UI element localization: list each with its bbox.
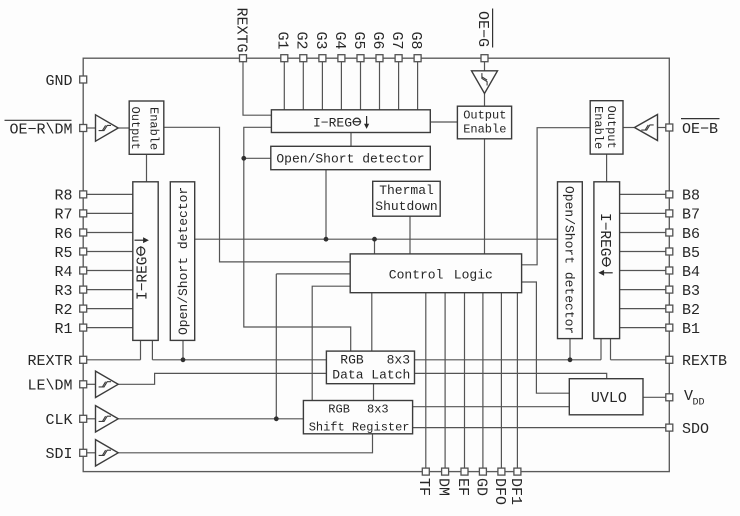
svg-text:Open/Short detector: Open/Short detector — [276, 152, 424, 167]
svg-text:REXTB: REXTB — [682, 353, 727, 370]
svg-text:SDI: SDI — [45, 446, 72, 463]
wire G7 drop — [398, 62, 400, 110]
wire Data Latch to Shift Register — [373, 384, 375, 401]
pin B6 — [666, 229, 673, 236]
svg-text:B4: B4 — [682, 264, 700, 281]
svg-text:B1: B1 — [682, 321, 700, 338]
junction fault B — [372, 237, 377, 242]
wire Control Logic to Shift Register — [312, 286, 350, 400]
wire SDI buffer to Shift Register — [119, 434, 373, 453]
svg-text:R6: R6 — [54, 226, 72, 243]
svg-text:TF: TF — [415, 478, 432, 496]
buffer OE-R input — [96, 115, 119, 141]
svg-text:G4: G4 — [331, 32, 348, 50]
wire branch to Open/Short top — [244, 157, 271, 159]
svg-text:Enable: Enable — [591, 106, 605, 149]
svg-text:Enable: Enable — [463, 123, 506, 137]
svg-text:GD: GD — [472, 478, 489, 496]
svg-text:8x3: 8x3 — [367, 403, 389, 417]
pin TF — [422, 468, 429, 475]
svg-text:Shutdown: Shutdown — [375, 199, 437, 214]
pin R8 — [80, 191, 87, 198]
svg-text:GND: GND — [45, 73, 72, 90]
buffer SDI input — [96, 440, 119, 466]
wire G5 drop — [360, 62, 362, 110]
wire B4 stub — [620, 270, 666, 272]
svg-text:Open/Short detector: Open/Short detector — [561, 186, 576, 334]
junction REXTG branch — [241, 156, 246, 161]
pin OE-B — [666, 124, 673, 131]
svg-text:R7: R7 — [54, 207, 72, 224]
svg-text:LE\DM: LE\DM — [27, 378, 72, 395]
pin B8 — [666, 191, 673, 198]
block Open/Short detector right — [558, 182, 583, 339]
svg-text:DF1: DF1 — [507, 478, 524, 505]
wire EF drop — [464, 293, 466, 472]
wire REXTG to I-REG top — [243, 62, 271, 115]
block RGB 8x3 Data Latch — [326, 351, 414, 384]
svg-text:G6: G6 — [369, 32, 386, 50]
wire I-REG top to Open/Short top — [350, 133, 352, 147]
label I-REG left text — [135, 237, 152, 300]
svg-text:B7: B7 — [682, 207, 700, 224]
wire G3 drop — [321, 62, 323, 110]
svg-text:G3: G3 — [312, 32, 329, 50]
svg-text:I−REG: I−REG — [135, 256, 151, 300]
pin DFO — [498, 468, 505, 475]
wire R6 stub — [87, 232, 133, 234]
wire Shift Register to UVLO — [413, 406, 570, 408]
wire LE buffer to latch bus — [119, 373, 607, 384]
pin G1 — [281, 55, 288, 62]
buffer LE input — [96, 371, 119, 397]
block Thermal Shutdown — [373, 181, 441, 216]
pin G2 — [300, 55, 307, 62]
junction CLK branch — [274, 416, 279, 421]
wire DFO drop — [500, 293, 502, 472]
wire G8 drop — [417, 62, 419, 110]
block I-REG top — [271, 110, 430, 133]
wire OE-R to buffer — [87, 127, 96, 129]
junction REXT left — [181, 357, 186, 362]
pin R2 — [80, 305, 87, 312]
pin OE-G — [481, 55, 488, 62]
wire Thermal Shutdown to Control Logic — [409, 216, 411, 254]
label I-REG right text — [596, 213, 613, 276]
wire I-REG L pin1 — [140, 340, 142, 359]
pin DM — [442, 468, 449, 475]
svg-text:Output: Output — [128, 107, 142, 150]
wire Open/Short top drop — [325, 170, 327, 240]
wire Output Enable L to Control Logic — [164, 127, 350, 262]
svg-text:G1: G1 — [274, 32, 291, 50]
wire R2 stub — [87, 308, 133, 310]
svg-text:Control: Control — [389, 267, 444, 282]
buffer OE-B input — [635, 115, 658, 141]
svg-text:OE−B: OE−B — [682, 121, 718, 138]
wire DF1 drop — [516, 293, 518, 472]
wire G6 drop — [379, 62, 381, 110]
wire Control Logic to Output Enable R — [522, 128, 591, 265]
svg-text:OE−G: OE−G — [474, 11, 491, 47]
wire fault bus — [195, 238, 558, 240]
block I-REG right — [594, 182, 620, 339]
wire G1 drop — [283, 62, 285, 110]
wire REXTR stub — [87, 359, 141, 361]
label I-REG top text — [313, 116, 369, 131]
svg-text:CLK: CLK — [45, 412, 72, 429]
buffer OE-G input — [472, 71, 498, 94]
svg-text:REXTR: REXTR — [27, 353, 72, 370]
pin B1 — [666, 324, 673, 331]
wire Output Enable R to I-REG R — [606, 154, 608, 182]
wire REXTB stub — [611, 359, 666, 361]
wire GD drop — [482, 293, 484, 472]
svg-text:B5: B5 — [682, 245, 700, 262]
wire TF drop — [425, 293, 427, 472]
pin REXTB — [666, 356, 673, 363]
pin R3 — [80, 286, 87, 293]
pin B4 — [666, 267, 673, 274]
pin EF — [461, 468, 468, 475]
svg-text:G2: G2 — [293, 32, 310, 50]
svg-text:B2: B2 — [682, 302, 700, 319]
svg-text:B8: B8 — [682, 188, 700, 205]
svg-text:RGB: RGB — [328, 403, 350, 417]
pin R5 — [80, 248, 87, 255]
svg-text:DM: DM — [435, 478, 452, 496]
wire R7 stub — [87, 212, 133, 214]
wire Control Logic to UVLO — [522, 282, 570, 393]
wire Output Enable L to I-REG L — [146, 154, 148, 182]
wire I-REG R pin2 — [610, 339, 612, 360]
svg-text:Shift Register: Shift Register — [309, 421, 410, 435]
block Open/Short detector left — [170, 182, 194, 341]
pin R4 — [80, 267, 87, 274]
block Open/Short detector top — [271, 146, 431, 169]
svg-text:Open/Short detector: Open/Short detector — [176, 187, 191, 335]
svg-text:G5: G5 — [350, 32, 367, 50]
svg-text:R5: R5 — [54, 245, 72, 262]
wire LE to buffer — [87, 383, 96, 385]
pin B2 — [666, 305, 673, 312]
svg-text:SDO: SDO — [682, 421, 709, 438]
wire UVLO to VDD — [643, 396, 666, 398]
junction fault A — [324, 237, 329, 242]
pin G5 — [357, 55, 364, 62]
wire G4 drop — [340, 62, 342, 110]
block I-REG left — [133, 182, 158, 341]
wire G2 drop — [302, 62, 304, 110]
pin G7 — [395, 55, 402, 62]
wire buffer to Output Enable G — [484, 94, 486, 107]
pin G3 — [319, 55, 326, 62]
svg-text:RGB: RGB — [340, 353, 364, 368]
wire buffer to Output Enable R — [623, 127, 635, 129]
svg-text:R8: R8 — [54, 188, 72, 205]
svg-text:G7: G7 — [388, 32, 405, 50]
pin B5 — [666, 248, 673, 255]
wire OE-G pin to buffer — [484, 62, 486, 71]
svg-text:R3: R3 — [54, 283, 72, 300]
svg-text:R2: R2 — [54, 302, 72, 319]
wire B8 stub — [620, 193, 666, 195]
block Control Logic — [350, 254, 521, 293]
wire Output Enable G to Control Logic — [484, 139, 486, 254]
wire I-REG top to Output Enable G — [430, 121, 457, 123]
svg-text:Data Latch: Data Latch — [332, 368, 410, 383]
wire Open/Short L drop — [182, 340, 184, 359]
wire B6 stub — [620, 232, 666, 234]
pin GND — [80, 76, 87, 83]
svg-text:Output: Output — [463, 109, 506, 123]
block RGB 8x3 Shift Register — [303, 401, 412, 434]
pin REXTG — [240, 55, 247, 62]
wire buffer to Output Enable L — [119, 127, 130, 129]
pin CLK — [80, 415, 87, 422]
svg-text:Thermal: Thermal — [379, 183, 434, 198]
wire CLK branch up — [275, 274, 277, 419]
pin R6 — [80, 229, 87, 236]
pin G8 — [414, 55, 421, 62]
pin LE\DM — [80, 381, 87, 388]
block Output Enable right — [590, 101, 623, 154]
wire I-REG R pin1 — [600, 339, 602, 360]
wire CLK branch to Control Logic — [276, 273, 350, 275]
wire B5 stub — [620, 251, 666, 253]
svg-text:I−REG: I−REG — [313, 116, 352, 131]
pin B3 — [666, 286, 673, 293]
svg-text:Output: Output — [604, 106, 618, 149]
wire I-REG top out to Data Latch — [244, 127, 351, 351]
svg-text:UVLO: UVLO — [591, 390, 627, 407]
pin G4 — [338, 55, 345, 62]
block Output Enable left — [129, 101, 164, 154]
wire SDI to buffer — [87, 452, 96, 454]
svg-text:REXTG: REXTG — [232, 8, 249, 53]
outer boundary of IC — [83, 58, 669, 471]
wire CLK to buffer — [87, 418, 96, 420]
pin R1 — [80, 324, 87, 331]
wire Open/Short R drop — [569, 339, 571, 360]
wire fault bus to Control Logic — [374, 239, 376, 254]
wire Control Logic to Data Latch — [371, 293, 373, 351]
pin G6 — [376, 55, 383, 62]
wire DM drop — [444, 293, 446, 472]
svg-text:DFO: DFO — [491, 478, 508, 505]
wire REXT bus — [152, 359, 601, 361]
wire I-REG L pin2 — [151, 340, 153, 359]
wire B1 stub — [620, 327, 666, 329]
svg-text:Enable: Enable — [147, 107, 161, 150]
svg-text:OE−R\DM: OE−R\DM — [9, 121, 72, 138]
pin SDI — [80, 449, 87, 456]
wire Shift Register to SDO — [413, 427, 666, 429]
svg-text:G8: G8 — [407, 32, 424, 50]
svg-text:I−REG: I−REG — [596, 213, 612, 257]
svg-text:R1: R1 — [54, 321, 72, 338]
buffer CLK input — [96, 406, 119, 432]
wire B2 stub — [620, 308, 666, 310]
pin REXTR — [80, 356, 87, 363]
svg-text:8x3: 8x3 — [387, 353, 410, 368]
svg-text:R4: R4 — [54, 264, 72, 281]
svg-text:DD: DD — [693, 398, 705, 409]
svg-text:B6: B6 — [682, 226, 700, 243]
svg-text:B3: B3 — [682, 283, 700, 300]
pin B7 — [666, 210, 673, 217]
wire R4 stub — [87, 270, 133, 272]
pin R7 — [80, 210, 87, 217]
wire OE-B to buffer — [658, 127, 666, 129]
svg-text:EF: EF — [454, 478, 471, 496]
pin DF1 — [514, 468, 521, 475]
wire R1 stub — [87, 327, 133, 329]
wire R3 stub — [87, 289, 133, 291]
block UVLO — [569, 379, 643, 415]
wire CLK buffer to Shift Register — [119, 418, 304, 420]
pin GD — [479, 468, 486, 475]
wire B3 stub — [620, 289, 666, 291]
wire R5 stub — [87, 251, 133, 253]
pin OE-R\DM — [80, 125, 87, 132]
junction REXT right — [568, 357, 573, 362]
wire B7 stub — [620, 212, 666, 214]
pin VDD — [666, 394, 673, 401]
pin SDO — [666, 424, 673, 431]
svg-text:Logic: Logic — [454, 267, 493, 282]
block Output Enable green — [457, 106, 511, 139]
wire R8 stub — [87, 193, 133, 195]
